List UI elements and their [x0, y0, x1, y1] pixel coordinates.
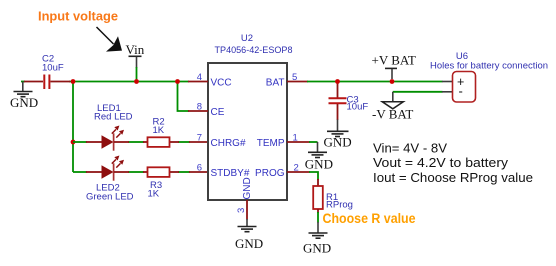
- svg-text:Input voltage: Input voltage: [38, 9, 118, 24]
- pin 6 stub: [189, 171, 208, 173]
- svg-text:GND: GND: [303, 241, 331, 256]
- pin 3 GND (bottom): [236, 177, 253, 219]
- resistor R1 RProg: [313, 179, 353, 213]
- svg-text:Vin: Vin: [126, 42, 145, 57]
- svg-text:1K: 1K: [148, 189, 160, 200]
- pin 5 BAT: [266, 72, 308, 88]
- svg-text:8: 8: [197, 102, 202, 113]
- pin 2 PROG: [255, 163, 310, 179]
- junction node at C3: [335, 79, 340, 84]
- pin 6 STDBY#: [197, 163, 250, 179]
- svg-text:Vin= 4V - 8V: Vin= 4V - 8V: [373, 141, 447, 156]
- power port -V BAT: [372, 92, 413, 122]
- svg-text:GND: GND: [305, 156, 333, 171]
- wire: main input bus: [21, 81, 25, 83]
- pin 8 CE: [188, 102, 225, 118]
- wire: TEMP to ground: [309, 141, 318, 143]
- svg-text:10uF: 10uF: [42, 63, 64, 74]
- wire: PROG to R1: [309, 172, 318, 180]
- svg-text:1: 1: [293, 133, 298, 144]
- svg-text:PROG: PROG: [255, 168, 285, 179]
- svg-text:1K: 1K: [153, 125, 165, 136]
- pin 7 stub: [189, 141, 208, 143]
- svg-text:Iout = Choose RProg value: Iout = Choose RProg value: [373, 170, 533, 185]
- svg-text:Green LED: Green LED: [86, 192, 134, 203]
- svg-text:U2: U2: [241, 33, 253, 44]
- annotation text block: [373, 141, 533, 185]
- svg-text:-V BAT: -V BAT: [372, 106, 413, 121]
- svg-text:TEMP: TEMP: [257, 138, 285, 149]
- svg-text:GND: GND: [235, 236, 263, 251]
- svg-text:BAT: BAT: [266, 77, 285, 88]
- pin 4 VCC: [188, 72, 232, 88]
- svg-text:VCC: VCC: [211, 77, 232, 88]
- ground at C3: [324, 120, 352, 150]
- junction node at CE branch: [175, 79, 180, 84]
- junction node at left branch: [71, 79, 76, 84]
- svg-text:Vout = 4.2V to battery: Vout = 4.2V to battery: [373, 155, 509, 170]
- svg-text:Choose R value: Choose R value: [323, 211, 416, 226]
- LED D1 (LED1 Red LED): [86, 103, 133, 151]
- svg-text:RProg: RProg: [326, 200, 353, 211]
- svg-text:2: 2: [294, 163, 299, 174]
- ground at TEMP: [305, 142, 333, 171]
- svg-text:-: -: [459, 84, 463, 99]
- svg-text:6: 6: [197, 163, 202, 174]
- junction node at +V BAT: [390, 79, 395, 84]
- ground at R1: [303, 222, 331, 256]
- ground at pin 3: [235, 219, 263, 251]
- wire: Vin drop to bus: [136, 67, 138, 82]
- ground at C2: [10, 82, 38, 111]
- arrow pointing to Vin: [97, 27, 123, 52]
- svg-text:TP4056-42-ESOP8: TP4056-42-ESOP8: [215, 45, 293, 56]
- power flag +V BAT: [372, 53, 416, 80]
- svg-text:CHRG#: CHRG#: [211, 138, 246, 149]
- svg-text:10uF: 10uF: [347, 102, 369, 113]
- svg-text:7: 7: [197, 133, 202, 144]
- capacitor C3: [329, 83, 369, 121]
- svg-text:GND: GND: [324, 134, 352, 149]
- svg-text:3: 3: [236, 208, 247, 213]
- connector U6: [430, 51, 548, 102]
- svg-text:Red LED: Red LED: [94, 112, 133, 123]
- wire: left vertical branch to LEDs: [72, 82, 74, 173]
- svg-text:GND: GND: [242, 177, 253, 199]
- svg-text:5: 5: [292, 72, 297, 83]
- pin 1 TEMP: [257, 133, 310, 149]
- LED2 row wires: [73, 171, 87, 173]
- wire: CE branch: [178, 82, 190, 112]
- junction node at LED1 branch: [71, 140, 76, 145]
- svg-text:CE: CE: [211, 107, 225, 118]
- svg-text:4: 4: [197, 72, 202, 83]
- svg-text:Holes for battery connection: Holes for battery connection: [430, 60, 548, 71]
- junction node at Vin: [134, 79, 139, 84]
- svg-text:+V BAT: +V BAT: [372, 53, 416, 68]
- wire: -V BAT return: [393, 91, 443, 93]
- svg-text:GND: GND: [10, 95, 38, 110]
- pin 7 CHRG#: [197, 133, 246, 149]
- resistor R3: [143, 167, 179, 199]
- resistor R2: [143, 117, 179, 147]
- svg-text:STDBY#: STDBY#: [211, 168, 250, 179]
- op IC U2 TP4056 body: [208, 33, 293, 200]
- power flag Vin: [126, 42, 145, 68]
- LED D2 (LED2 Green LED): [86, 156, 134, 203]
- wire: BAT output bus: [307, 81, 443, 83]
- wire: R1 to ground: [317, 212, 319, 223]
- LED1 row wires: [73, 141, 87, 143]
- capacitor C2: [24, 54, 70, 90]
